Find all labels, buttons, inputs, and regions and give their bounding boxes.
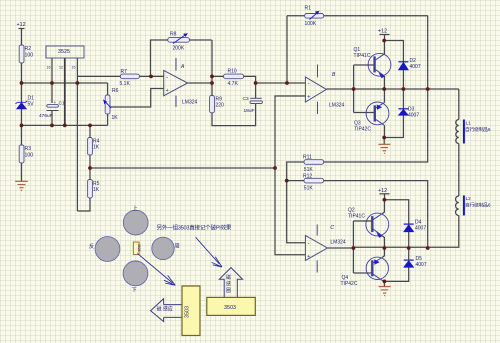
svg-text:周: 周 — [175, 243, 180, 250]
wire rail y83 — [22, 82, 108, 84]
node rail83 dots — [20, 81, 24, 85]
wire R6 wiper to op-amp A plus — [110, 89, 164, 108]
zener diode D1 5V — [16, 101, 28, 109]
diode D2 4007 — [398, 62, 408, 70]
wire rail y125 — [22, 124, 108, 126]
capacitor C1 — [47, 105, 59, 108]
coil circle left — [95, 237, 120, 262]
svg-text:220: 220 — [216, 103, 225, 109]
wire Q3 base — [354, 112, 375, 114]
svg-text:4007: 4007 — [416, 262, 427, 268]
node rail1 dots — [352, 87, 356, 91]
wire R9 bottom to C3 bottom — [212, 103, 256, 125]
wire long rail y168 — [90, 167, 275, 169]
svg-text:自行绕制品6: 自行绕制品6 — [465, 202, 491, 209]
svg-text:LM324: LM324 — [330, 240, 346, 246]
wire feedback vertical x212 — [211, 40, 213, 96]
wire R11 to vertical B — [287, 162, 306, 243]
wire op-amp B plus input — [275, 96, 305, 255]
svg-text:+: + — [166, 88, 169, 94]
potentiometer R1 100K — [305, 14, 324, 19]
block arrow up (to coil) — [219, 268, 242, 298]
pin 1 of 3525 — [51, 58, 53, 103]
svg-text:3525: 3525 — [58, 49, 70, 55]
wire +12 stub — [384, 35, 386, 41]
svg-text:1K: 1K — [93, 145, 100, 151]
svg-text:圈: 圈 — [226, 288, 231, 294]
svg-text:TIP41C: TIP41C — [348, 214, 365, 220]
svg-text:A: A — [180, 64, 185, 70]
IC box 3503 vertical (yellow) — [182, 286, 200, 336]
node op-amp A minus dot — [149, 75, 153, 79]
svg-text:R1: R1 — [305, 6, 312, 12]
svg-text:C1: C1 — [59, 101, 65, 107]
node +12 bottom dot — [383, 198, 387, 202]
resistor R3 — [19, 145, 24, 163]
wire base vertical x353.6 — [353, 65, 355, 113]
wire D5 cathode to rail2 — [408, 248, 410, 260]
wire R6 top lead — [107, 83, 109, 95]
svg-text:TIP42C: TIP42C — [341, 281, 358, 287]
svg-text:上: 上 — [133, 204, 138, 212]
resistor R12 51K — [304, 178, 324, 183]
svg-text:476uF: 476uF — [39, 113, 53, 119]
wire R7 net — [77, 75, 163, 77]
svg-text:C3: C3 — [243, 96, 249, 102]
coil circle bottom — [123, 261, 148, 286]
svg-text:1K: 1K — [112, 115, 119, 121]
resistor R9 220 — [210, 96, 215, 113]
node R4/R5 divider dot — [88, 166, 92, 170]
svg-text:磁 感应: 磁 感应 — [157, 306, 173, 313]
wire D3 cathode to rail1 — [402, 89, 404, 109]
svg-text:自行绕制品6: 自行绕制品6 — [465, 126, 491, 133]
IC U1 3525 box — [46, 46, 84, 58]
wire ground stub Q3 — [383, 138, 385, 145]
svg-text:3503: 3503 — [185, 306, 191, 318]
svg-text:R2: R2 — [25, 46, 32, 52]
svg-text:R11: R11 — [303, 155, 312, 161]
wire R1 feedback left vertical — [286, 16, 288, 83]
wire Q2 base — [353, 220, 372, 222]
svg-text:TIP41C: TIP41C — [354, 53, 371, 59]
svg-text:-: - — [166, 75, 168, 81]
svg-text:磁: 磁 — [226, 274, 231, 281]
inductor L2 — [456, 196, 459, 216]
node op-amp B minus dot — [285, 81, 289, 85]
svg-text:感: 感 — [226, 281, 231, 288]
svg-text:R6: R6 — [112, 88, 119, 94]
power +12 bar (left) — [19, 28, 25, 30]
svg-text:+12: +12 — [378, 188, 387, 194]
IC box 3503 horizontal (yellow) — [207, 297, 256, 315]
op-amp B power stubs — [317, 65, 319, 115]
node long rail dot — [273, 166, 277, 170]
svg-text:+: + — [307, 94, 310, 100]
wire ground node to D5 anode — [384, 267, 408, 281]
svg-text:4007: 4007 — [408, 113, 419, 119]
wire Q4 emitter to rail2 — [382, 248, 384, 258]
wire right vertical x427.7 (R1/R11 to rail1) — [324, 16, 428, 162]
svg-text:+12: +12 — [17, 22, 26, 28]
arrow callout 2 (to coil arrow) — [196, 237, 222, 267]
inductor L1 — [456, 120, 459, 144]
wire ground node to D3 — [384, 115, 403, 137]
resistor R2 — [19, 45, 24, 63]
wire +12 node to D2 — [384, 41, 403, 62]
node Q4 ground dot — [383, 280, 387, 284]
svg-text:4007: 4007 — [410, 64, 421, 70]
wire Q2 emitter to rail2 — [382, 236, 384, 248]
svg-text:3503: 3503 — [224, 305, 236, 311]
svg-text:16: 16 — [47, 66, 51, 70]
wire R6 bottom lead — [107, 114, 109, 125]
svg-text:LM324: LM324 — [329, 103, 345, 109]
wire Q3 collector top to rail1 — [383, 89, 385, 103]
diode D5 4007 — [404, 260, 414, 267]
wire R4 top — [89, 125, 91, 137]
svg-text:R3: R3 — [25, 146, 32, 152]
svg-text:LM324: LM324 — [182, 100, 198, 106]
wire Q1 collector to +12 node — [383, 41, 385, 55]
wire D1 bottom — [21, 109, 23, 125]
svg-text:3525: 3525 — [137, 244, 141, 252]
svg-text:另外一组3503直接记个破PI效果: 另外一组3503直接记个破PI效果 — [157, 224, 232, 232]
svg-text:R7: R7 — [121, 69, 128, 75]
node +12 top dot — [382, 39, 386, 43]
power +12 bar (top right) — [380, 34, 390, 36]
svg-text:-: - — [308, 241, 310, 247]
wire R3 top — [21, 125, 23, 145]
svg-text:+12: +12 — [378, 29, 387, 35]
svg-text:18uF: 18uF — [244, 108, 255, 114]
svg-text:200K: 200K — [173, 46, 185, 52]
transistor Q4 TIP42C — [366, 257, 388, 280]
wire R1 top net — [287, 15, 428, 17]
svg-text:R12: R12 — [303, 174, 312, 180]
ground (under Q4) — [379, 287, 391, 296]
mini 3525 box (center of circles) — [133, 242, 139, 255]
svg-text:4.7K: 4.7K — [228, 81, 239, 87]
node R12 dot — [285, 179, 289, 183]
wire op-amp C output to rail2 — [327, 247, 353, 249]
svg-text:12: 12 — [59, 66, 63, 70]
wire R4 to R5 — [89, 155, 91, 180]
coil circle top — [123, 210, 148, 235]
resistor R10 4.7K — [224, 74, 244, 79]
wire op-amp B output to rail1 — [326, 88, 458, 90]
op-amp U1A triangle — [164, 70, 188, 95]
svg-text:反: 反 — [89, 242, 94, 250]
svg-text:-: - — [308, 82, 310, 88]
node R10/C3 dot — [254, 81, 258, 85]
coil circle right — [152, 237, 174, 259]
wire D1 top — [21, 83, 23, 102]
wire Q4 base — [353, 272, 372, 274]
wire R10 net with jog — [212, 76, 256, 98]
power +12 bar (bottom right) — [380, 193, 390, 195]
svg-text:1K: 1K — [93, 187, 100, 193]
wire C1 bottom — [51, 111, 53, 126]
resistor R4 — [88, 138, 93, 156]
node op-amp A output dots — [210, 75, 214, 79]
wire Q4 collector to ground node — [382, 280, 384, 281]
wire R12 net — [287, 181, 428, 248]
pin 2 of 3525 (thick) — [64, 58, 66, 125]
pin 3 of 3525 — [76, 58, 78, 211]
transistor Q2 TIP41C — [366, 213, 389, 238]
wire D2 anode to rail1 — [402, 70, 404, 89]
node rail125 dots — [20, 124, 24, 128]
wire Q1 base — [354, 64, 375, 66]
svg-text:100K: 100K — [305, 21, 317, 27]
diode D3 4007 — [398, 109, 408, 116]
resistor R7 — [120, 74, 139, 79]
svg-text:R10: R10 — [228, 69, 237, 75]
op-amp C power stubs — [316, 225, 318, 273]
potentiometer R6 — [105, 95, 110, 114]
wire +12 node to D4 — [384, 200, 408, 224]
potentiometer R8 200K — [168, 38, 190, 43]
op-amp U1C triangle — [305, 236, 327, 261]
wire R5 bottom to pin3 column — [77, 198, 90, 211]
svg-text:5.1K: 5.1K — [120, 81, 131, 87]
wire op-amp A output — [188, 82, 212, 84]
node rail2 dots — [352, 246, 356, 250]
wire L1/L2 column — [353, 89, 458, 247]
block arrow left (sense coil) — [151, 299, 182, 322]
ground (under R3) — [15, 181, 28, 190]
svg-text:+: + — [307, 254, 310, 260]
transistor Q3 TIP42C — [366, 102, 389, 125]
node Q3 ground dot — [382, 136, 386, 140]
wire +12 stub (bottom) — [384, 194, 386, 200]
svg-text:R8: R8 — [170, 32, 177, 38]
resistor R5 — [88, 180, 93, 199]
arrow callout 1 (to 3503 vertical box) — [138, 254, 176, 286]
svg-text:5V: 5V — [28, 102, 35, 108]
wire D4 anode to rail2 — [408, 232, 410, 248]
wire Q3 emitter bottom to ground node — [383, 125, 385, 137]
wire R8 top loop — [151, 40, 212, 76]
svg-text:C: C — [330, 225, 334, 231]
svg-text:15: 15 — [72, 66, 76, 70]
svg-text:51K: 51K — [304, 186, 314, 192]
ground (under Q3) — [378, 144, 390, 153]
svg-text:L2: L2 — [466, 196, 472, 201]
wire Q1 emitter to rail1 — [383, 76, 385, 89]
svg-text:+: + — [54, 100, 57, 105]
wire ground stub Q4 — [383, 281, 385, 286]
svg-text:下: 下 — [132, 287, 137, 294]
svg-text:L1: L1 — [466, 121, 472, 126]
svg-text:4007: 4007 — [415, 226, 426, 232]
svg-text:TIP42C: TIP42C — [354, 127, 371, 133]
resistor R11 51K — [304, 160, 324, 165]
wire R3 to ground — [21, 163, 23, 181]
svg-text:100: 100 — [25, 53, 34, 59]
svg-text:100: 100 — [25, 153, 34, 159]
wire +12 to R2 — [21, 29, 23, 46]
svg-text:51K: 51K — [304, 167, 314, 173]
wire R10 node to op-amp B minus — [256, 82, 306, 84]
capacitor C3 — [250, 97, 262, 99]
op-amp A power stubs — [175, 58, 177, 107]
op-amp U1B triangle — [305, 77, 326, 102]
wire R2 to rail — [21, 63, 23, 83]
diode D4 4007 — [404, 224, 414, 232]
wire base vertical x353.4 — [352, 221, 354, 273]
wire Q2 collector to +12 node — [382, 200, 384, 214]
transistor Q1 TIP41C — [368, 53, 391, 78]
